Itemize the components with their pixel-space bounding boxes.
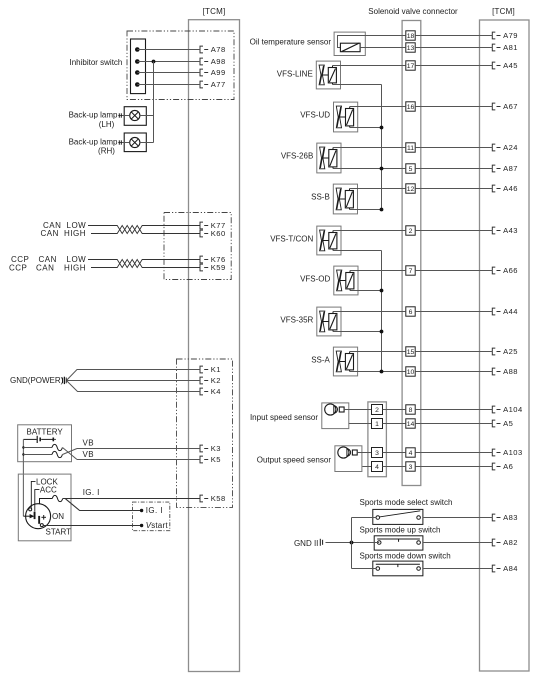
wire pin 13 to TCM xyxy=(415,47,492,49)
pin K5 left TCM xyxy=(200,455,221,464)
svg-text:K1: K1 xyxy=(211,365,221,374)
svg-text:16: 16 xyxy=(407,104,415,111)
inhibitor harness dash-dot box xyxy=(127,31,234,100)
svg-text:GND II: GND II xyxy=(294,539,318,548)
svg-text:A67: A67 xyxy=(503,102,518,111)
pin A24 right TCM xyxy=(492,143,518,152)
wire IG branch to IG.I terminal xyxy=(66,499,141,511)
wire sensor pin 2 to main connector xyxy=(383,409,406,411)
label VFS-26B xyxy=(281,152,313,161)
svg-text:VFS-UD: VFS-UD xyxy=(300,111,330,120)
pin A77 left TCM xyxy=(200,80,226,89)
svg-text:A66: A66 xyxy=(503,266,518,275)
right TCM connector box xyxy=(480,20,530,671)
pin A66 right TCM xyxy=(492,266,518,275)
wire SS-A high side to pin xyxy=(350,351,406,353)
svg-text:4: 4 xyxy=(375,464,379,471)
wire pin 10 to TCM xyxy=(415,371,492,373)
solenoid common bus segment 1 xyxy=(381,85,383,210)
svg-text:12: 12 xyxy=(407,186,415,193)
pin A84 right TCM xyxy=(492,564,518,573)
label VFS-35R xyxy=(280,316,313,325)
leader LOCK xyxy=(31,481,35,507)
solenoid connector pin 7 xyxy=(406,266,415,275)
left TCM label xyxy=(203,7,226,16)
wire SS-B high side to pin xyxy=(350,188,406,190)
svg-text:[TCM]: [TCM] xyxy=(203,7,226,16)
svg-text:A88: A88 xyxy=(503,367,518,376)
label CAN HIGH xyxy=(41,229,87,238)
svg-text:A81: A81 xyxy=(503,43,518,52)
wire pin 8 to TCM xyxy=(415,409,492,411)
label input speed sensor xyxy=(250,413,318,422)
label ON xyxy=(52,512,64,521)
battery tap dot 2 xyxy=(22,453,24,455)
label oil temperature sensor xyxy=(250,37,332,46)
svg-text:Sports mode select switch: Sports mode select switch xyxy=(360,498,453,507)
svg-text:Back-up lamp: Back-up lamp xyxy=(69,137,118,146)
right TCM label xyxy=(492,7,515,16)
wire pin 14 to TCM xyxy=(415,423,492,425)
wire pin 18 to TCM xyxy=(415,35,492,37)
svg-text:Back-up lamp: Back-up lamp xyxy=(69,111,118,120)
GND(POWER) terminal xyxy=(10,376,66,385)
solenoid connector pin 4 xyxy=(406,448,415,457)
wire VFS-26B high side to pin xyxy=(333,147,406,149)
svg-text:VB: VB xyxy=(83,450,94,459)
svg-text:17: 17 xyxy=(407,63,415,70)
label VFS-LINE xyxy=(277,70,313,79)
terminal IG.I xyxy=(140,506,163,515)
pin K58 left TCM xyxy=(200,494,226,503)
svg-text:A77: A77 xyxy=(211,80,226,89)
svg-text:start: start xyxy=(151,521,168,530)
wire VFS-LINE high side to pin xyxy=(333,65,406,67)
power/ground harness dash-dot box xyxy=(177,359,233,507)
svg-text:Sports mode up switch: Sports mode up switch xyxy=(360,526,441,535)
label START xyxy=(46,527,72,536)
wire sensor pin 1 to main connector xyxy=(383,423,406,425)
svg-text:2: 2 xyxy=(375,407,379,414)
wire VB upper to K3 xyxy=(77,448,200,450)
solenoid valve VFS-UD xyxy=(334,102,358,132)
wire down switch to A84 xyxy=(423,568,492,570)
wire up switch to A82 xyxy=(423,542,492,544)
wire input sensor sig xyxy=(344,409,371,411)
pin K59 left TCM xyxy=(200,263,226,272)
label CCP CAN HIGH xyxy=(9,263,86,272)
pin A6 right TCM xyxy=(492,462,513,471)
wire branch to up switch xyxy=(326,542,380,544)
label ACC xyxy=(40,486,57,495)
label VFS-OD xyxy=(300,275,330,284)
wire inhibitor to A98 xyxy=(137,61,200,63)
wire VFS-LINE low side xyxy=(333,84,382,86)
solenoid common bus segment 2 xyxy=(381,251,383,372)
pin A45 right TCM xyxy=(492,61,518,70)
svg-text:A98: A98 xyxy=(211,57,226,66)
solenoid valve VFS-T/CON xyxy=(317,226,341,255)
sports mode ground vertical xyxy=(351,518,353,569)
speed sensor connector pin 4 xyxy=(372,462,383,472)
solenoid valve SS-B xyxy=(333,184,357,214)
pin A44 right TCM xyxy=(492,307,518,316)
back-up lamp LH xyxy=(118,107,153,126)
svg-text:7: 7 xyxy=(409,268,413,275)
wire sensor pin 3 to main connector xyxy=(383,452,406,454)
wire inhibitor to A99 xyxy=(137,72,200,74)
svg-text:CAN: CAN xyxy=(41,229,59,238)
wire IG to K58 xyxy=(63,498,200,500)
svg-text:A83: A83 xyxy=(503,513,518,522)
pin K76 left TCM xyxy=(200,255,226,264)
pin A99 left TCM xyxy=(200,68,226,77)
svg-text:A78: A78 xyxy=(211,45,226,54)
bus corner from VFS-LINE xyxy=(0,0,1,1)
solenoid valve connector column xyxy=(402,21,421,486)
pin A81 right TCM xyxy=(492,43,518,52)
wire output sensor sig xyxy=(357,452,371,454)
solenoid connector pin 16 xyxy=(406,102,415,111)
svg-text:A46: A46 xyxy=(503,184,518,193)
svg-text:VB: VB xyxy=(83,439,94,448)
wire VFS-UD high side to pin xyxy=(350,106,406,108)
svg-text:A79: A79 xyxy=(503,31,518,40)
pin A25 right TCM xyxy=(492,347,518,356)
ignition switch box xyxy=(18,474,71,541)
label inhibitor switch xyxy=(69,58,122,67)
svg-text:5: 5 xyxy=(409,166,413,173)
GND II terminal xyxy=(294,539,323,548)
wire pin 12 to TCM xyxy=(415,188,492,190)
pin A98 left TCM xyxy=(200,57,226,66)
svg-text:10: 10 xyxy=(407,369,415,376)
svg-text:3: 3 xyxy=(409,464,413,471)
wire pin 2 to TCM xyxy=(415,230,492,232)
junction dot back-up lamp feed xyxy=(152,60,156,64)
wire inhibitor to A78 xyxy=(137,49,200,51)
speed sensor connector column xyxy=(368,402,387,477)
wire pin 3 to TCM xyxy=(415,466,492,468)
svg-text:IG. I: IG. I xyxy=(146,506,163,515)
svg-text:18: 18 xyxy=(407,33,415,40)
label VFS-T/CON xyxy=(270,235,313,244)
wire VFS-T/CON low side xyxy=(333,250,382,252)
speed sensor connector pin 2 xyxy=(372,405,383,415)
IG.I/Vstart dash-dot box xyxy=(133,502,170,531)
svg-text:HIGH: HIGH xyxy=(64,229,86,238)
wire pin 15 to TCM xyxy=(415,351,492,353)
label sports mode down switch xyxy=(360,551,451,560)
pin K1 left TCM xyxy=(200,365,221,374)
label SS-A xyxy=(311,356,330,365)
wire output sensor gnd xyxy=(362,466,371,468)
wire SS-A low side xyxy=(350,371,406,373)
svg-text:VFS-T/CON: VFS-T/CON xyxy=(270,235,313,244)
wire fuse1 to VB lower (cross) xyxy=(63,448,78,460)
input speed sensor xyxy=(322,403,349,429)
output speed sensor xyxy=(335,446,362,472)
label LOCK xyxy=(36,477,58,486)
svg-text:CCP: CCP xyxy=(9,263,27,272)
pin A67 right TCM xyxy=(492,102,518,111)
pin K77 left TCM xyxy=(200,221,226,230)
junction dot SS-B low xyxy=(380,208,384,212)
svg-text:K3: K3 xyxy=(211,444,221,453)
pin A78 left TCM xyxy=(200,45,226,54)
junction dot VFS-UD low xyxy=(380,126,384,130)
label sports mode select switch xyxy=(360,498,453,507)
wire select switch to A83 xyxy=(423,517,492,519)
svg-text:GND(POWER): GND(POWER) xyxy=(10,376,64,385)
svg-text:ON: ON xyxy=(52,512,64,521)
svg-text:A24: A24 xyxy=(503,143,518,152)
solenoid connector pin 14 xyxy=(406,419,415,428)
svg-text:A104: A104 xyxy=(503,405,523,414)
svg-text:A99: A99 xyxy=(211,68,226,77)
svg-text:K2: K2 xyxy=(211,376,221,385)
solenoid connector pin 11 xyxy=(406,143,415,152)
wire back-up lamp vertical feed xyxy=(153,62,155,143)
fuse VB-2 xyxy=(52,451,62,457)
svg-text:BATTERY: BATTERY xyxy=(27,427,64,436)
solenoid valve VFS-26B xyxy=(317,143,341,173)
wire battery to fuse 1 xyxy=(23,447,52,449)
svg-text:A82: A82 xyxy=(503,538,518,547)
svg-text:8: 8 xyxy=(409,407,413,414)
svg-text:Output speed sensor: Output speed sensor xyxy=(257,455,332,464)
wire inhibitor to A77 xyxy=(137,84,200,86)
svg-text:4: 4 xyxy=(409,450,413,457)
speed sensor connector pin 3 xyxy=(372,448,383,458)
solenoid connector pin 18 xyxy=(406,31,415,40)
wire START to Vstart xyxy=(43,525,140,527)
solenoid connector pin 2 xyxy=(406,226,415,235)
svg-text:2: 2 xyxy=(409,228,413,235)
svg-text:A103: A103 xyxy=(503,448,523,457)
svg-text:ACC: ACC xyxy=(40,486,57,495)
pin A79 right TCM xyxy=(492,31,518,40)
svg-text:Inhibitor switch: Inhibitor switch xyxy=(69,58,122,67)
svg-text:A25: A25 xyxy=(503,347,518,356)
label back-up lamp LH xyxy=(69,111,118,129)
wire GND to K2 xyxy=(67,380,201,382)
pin A5 right TCM xyxy=(492,419,513,428)
svg-text:SS-A: SS-A xyxy=(311,356,330,365)
svg-text:HIGH: HIGH xyxy=(64,263,86,272)
junction dot SS-A low xyxy=(380,370,384,374)
svg-text:K4: K4 xyxy=(211,387,221,396)
wire ON contact riser xyxy=(40,499,53,504)
pin K60 left TCM xyxy=(200,229,226,238)
svg-text:A6: A6 xyxy=(503,462,513,471)
svg-text:START: START xyxy=(46,527,72,536)
wire VFS-26B low side xyxy=(333,168,406,170)
left TCM connector box xyxy=(189,20,240,672)
solenoid valve VFS-LINE xyxy=(316,61,340,89)
wire GND to K4 xyxy=(67,381,201,392)
solenoid valve VFS-OD xyxy=(334,266,358,295)
svg-text:VFS-LINE: VFS-LINE xyxy=(277,70,313,79)
leader ACC xyxy=(35,490,40,512)
wire VFS-T/CON high side to pin xyxy=(333,230,406,232)
svg-text:1: 1 xyxy=(375,421,379,428)
inhibitor switch xyxy=(131,39,146,94)
fuse IG xyxy=(52,495,62,501)
wire pin 5 to TCM xyxy=(415,168,492,170)
wire pin 16 to TCM xyxy=(415,106,492,108)
svg-text:13: 13 xyxy=(407,45,415,52)
wire branch to select switch xyxy=(352,517,377,519)
wire VFS-UD low side xyxy=(350,127,382,129)
wire oil temp sensor low to pin 13 xyxy=(360,47,406,49)
solenoid connector pin 3 xyxy=(406,462,415,471)
svg-text:11: 11 xyxy=(407,145,414,152)
wire pin 7 to TCM xyxy=(415,270,492,272)
battery vertical feed xyxy=(22,439,24,516)
wire GND to K1 xyxy=(67,370,201,381)
back-up lamp RH xyxy=(118,133,153,152)
wire VB lower to K5 xyxy=(77,459,200,461)
wire fuse2 to VB upper (cross) xyxy=(63,449,78,455)
svg-text:VFS-OD: VFS-OD xyxy=(300,275,330,284)
solenoid connector pin 5 xyxy=(406,164,415,173)
svg-text:A44: A44 xyxy=(503,307,518,316)
label VB upper xyxy=(83,439,94,448)
pin A103 right TCM xyxy=(492,448,522,457)
label CCP CAN LOW xyxy=(11,255,86,264)
svg-text:CAN: CAN xyxy=(36,263,54,272)
wire VFS-OD low side xyxy=(350,290,382,292)
svg-text:6: 6 xyxy=(409,309,413,316)
svg-text:K60: K60 xyxy=(211,229,226,238)
pin A104 right TCM xyxy=(492,405,522,414)
solenoid connector pin 12 xyxy=(406,184,415,193)
label SS-B xyxy=(311,193,330,202)
label VB lower xyxy=(83,450,94,459)
CAN twisted pair wires xyxy=(88,226,200,234)
pin A88 right TCM xyxy=(492,367,518,376)
sports mode up switch xyxy=(374,536,423,550)
sports mode down switch xyxy=(373,561,423,576)
svg-text:IG. I: IG. I xyxy=(83,488,100,497)
wire pin 6 to TCM xyxy=(415,311,492,313)
label VFS-UD xyxy=(300,111,330,120)
terminal Vstart xyxy=(140,521,168,530)
wire VFS-35R high side to pin xyxy=(333,311,406,313)
solenoid connector pin 8 xyxy=(406,405,415,414)
wire battery to fuse 2 xyxy=(23,454,52,456)
svg-text:A45: A45 xyxy=(503,61,518,70)
oil temperature sensor (thermistor) xyxy=(334,32,406,55)
svg-text:A84: A84 xyxy=(503,564,518,573)
wire pin 4 to TCM xyxy=(415,452,492,454)
fuse VB-1 xyxy=(52,444,62,450)
svg-text:VFS-26B: VFS-26B xyxy=(281,152,313,161)
pin A82 right TCM xyxy=(492,538,518,547)
svg-text:SS-B: SS-B xyxy=(311,193,330,202)
ignition switch rotary contact xyxy=(23,504,50,529)
wire sensor pin 4 to main connector xyxy=(383,466,406,468)
svg-text:Oil temperature sensor: Oil temperature sensor xyxy=(250,37,332,46)
solenoid connector pin 17 xyxy=(406,61,415,70)
battery tap dot 1 xyxy=(22,446,24,448)
solenoid connector pin 6 xyxy=(406,307,415,316)
pin K3 left TCM xyxy=(200,444,221,453)
pin A43 right TCM xyxy=(492,226,518,235)
solenoid valve VFS-35R xyxy=(317,307,341,336)
wire branch to down switch xyxy=(352,568,377,570)
wire VFS-35R low side xyxy=(333,331,382,333)
label CAN LOW xyxy=(43,221,86,230)
wire pin 17 to TCM xyxy=(415,65,492,67)
wire pin 11 to TCM xyxy=(415,147,492,149)
sports mode ground junction dot xyxy=(350,541,354,545)
solenoid connector pin 15 xyxy=(406,347,415,356)
svg-text:Sports mode down switch: Sports mode down switch xyxy=(360,551,451,560)
solenoid valve connector label xyxy=(368,7,458,16)
svg-text:A87: A87 xyxy=(503,164,518,173)
sports mode select switch xyxy=(373,509,423,524)
svg-text:(RH): (RH) xyxy=(98,146,115,155)
pin A83 right TCM xyxy=(492,513,518,522)
svg-text:(LH): (LH) xyxy=(99,120,115,129)
svg-text:Input speed sensor: Input speed sensor xyxy=(250,413,318,422)
svg-text:A43: A43 xyxy=(503,226,518,235)
pin A46 right TCM xyxy=(492,184,518,193)
junction dot VFS-26B low xyxy=(380,167,384,171)
svg-text:Solenoid valve connector: Solenoid valve connector xyxy=(368,7,458,16)
junction dot VFS-OD low xyxy=(380,289,384,293)
svg-text:VFS-35R: VFS-35R xyxy=(280,316,313,325)
wire VFS-OD high side to pin xyxy=(350,270,406,272)
label output speed sensor xyxy=(257,455,332,464)
label sports mode up switch xyxy=(360,526,441,535)
wire SS-B low side xyxy=(350,209,382,211)
junction dot VFS-35R low xyxy=(380,330,384,334)
label back-up lamp RH xyxy=(69,137,118,155)
svg-text:A5: A5 xyxy=(503,419,513,428)
svg-text:14: 14 xyxy=(407,421,415,428)
battery xyxy=(18,425,72,462)
pin K2 left TCM xyxy=(200,376,221,385)
solenoid valve SS-A xyxy=(333,347,357,376)
svg-text:[TCM]: [TCM] xyxy=(492,7,515,16)
svg-text:3: 3 xyxy=(375,450,379,457)
solenoid connector pin 13 xyxy=(406,43,415,52)
svg-text:15: 15 xyxy=(407,349,415,356)
speed sensor connector pin 1 xyxy=(372,419,383,429)
CCP CAN twisted pair wires xyxy=(88,260,200,268)
svg-text:K59: K59 xyxy=(211,263,226,272)
pin K4 left TCM xyxy=(200,387,221,396)
solenoid connector pin 10 xyxy=(406,367,415,376)
svg-text:K58: K58 xyxy=(211,494,226,503)
wire input sensor gnd xyxy=(349,423,372,425)
CAN harness dash-dot box xyxy=(164,213,231,280)
pin A87 right TCM xyxy=(492,164,518,173)
label IG. I xyxy=(83,488,100,497)
svg-text:K5: K5 xyxy=(211,455,221,464)
